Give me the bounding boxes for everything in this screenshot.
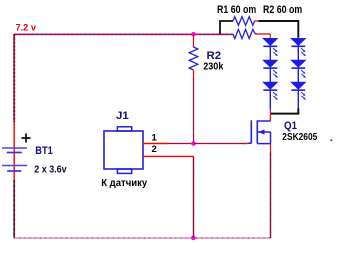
svg-text:К датчику: К датчику [101,178,147,189]
J1 pin 2 lead [143,155,194,157]
wire: LED link [297,46,299,60]
junction dot gate net [191,141,196,146]
LED column 1, LED 3 [263,82,278,100]
stray dot artifact right of 2SK2605 [330,139,332,141]
junction dot top rail (R2 tap) [191,32,196,37]
LED column 2, LED 2 [291,60,306,78]
battery BT1 plus sign [22,134,31,143]
wire: Q1 source to bottom rail [270,144,272,238]
svg-text:R2: R2 [207,50,222,62]
resistor R2 230k (vertical) [189,34,198,144]
wire: top +7.2V rail [14,33,233,35]
wire: pin1 to gate net junction [167,143,194,145]
battery BT1 [2,148,27,171]
resistor R2 60 om (lower horizontal) [233,29,270,38]
svg-text:J1: J1 [116,110,129,122]
svg-text:7.2 v: 7.2 v [16,23,37,33]
svg-text:2 x 3.6v: 2 x 3.6v [34,163,66,175]
svg-text:BT1: BT1 [35,145,53,157]
svg-text:2SK2605: 2SK2605 [282,132,317,143]
LED column 1, LED 2 [263,60,278,78]
resistor R1 60 om (top horizontal) [220,17,258,34]
wire: pin2 down to bottom rail [193,156,195,238]
transistor Q1 (N-MOSFET) [248,116,271,144]
wire: LED link [297,68,299,82]
LED column 1, LED 1 [263,38,278,56]
junction dot bottom rail [191,236,196,241]
svg-text:R2 60 om: R2 60 om [263,4,302,16]
wire: LED link [269,46,271,60]
svg-text:R1 60 om: R1 60 om [217,4,256,16]
svg-text:230k: 230k [203,61,224,72]
wire: gate net junction to Q1 gate [194,143,248,145]
wire: LED column2 cathode lead [297,90,299,108]
wire: R1 to LED column 2 (black) [258,21,298,38]
LED column 2, LED 1 [291,38,306,56]
connector J1 [104,127,143,174]
svg-text:1: 1 [152,133,158,144]
wire: LED link [269,68,271,82]
wire: LED columns join (black) [271,109,299,114]
wire: LED column1 cathode lead [269,90,271,110]
wire: LED column 1 to Q1 drain [269,110,271,121]
svg-text:2: 2 [152,144,157,155]
wire: left rail to battery [13,34,15,238]
J1 pin 1 lead [143,143,167,145]
LED column 2, LED 3 [291,82,306,100]
LED column 1 anode lead [269,34,271,38]
wire: bottom return rail [14,237,271,239]
svg-text:Q1: Q1 [284,120,297,132]
